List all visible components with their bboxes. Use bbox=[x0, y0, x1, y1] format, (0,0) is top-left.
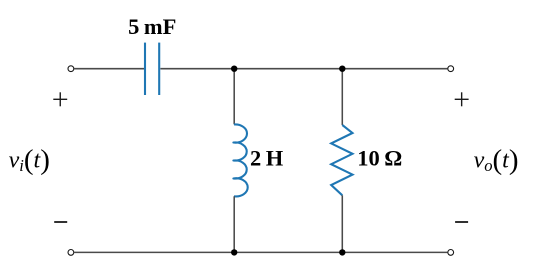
node: top junction at inductor bbox=[231, 66, 237, 72]
inductor L1 (2 H) bbox=[233, 124, 247, 196]
wire: inductor branch top bbox=[233, 69, 235, 125]
capacitor C1 (5 mF) plates bbox=[145, 43, 159, 95]
resistor R1 (10 Ohm) zigzag bbox=[331, 125, 352, 195]
wire: inductor branch bottom bbox=[233, 196, 235, 252]
terminal: input bottom (open circle) bbox=[68, 250, 74, 256]
svg-text:10 Ω: 10 Ω bbox=[357, 146, 402, 171]
wire: resistor branch top bbox=[341, 69, 343, 125]
wire: resistor branch bottom bbox=[341, 195, 343, 252]
label: minus sign input bbox=[54, 221, 67, 223]
wire: top rail right segment (capacitor to output terminal) bbox=[160, 68, 447, 70]
wire: top rail left segment (input terminal to capacitor) bbox=[74, 68, 144, 70]
svg-text:vi(t): vi(t) bbox=[9, 144, 50, 176]
terminal: input top (open circle) bbox=[68, 66, 74, 72]
wire: bottom rail bbox=[74, 251, 447, 253]
svg-text:2 H: 2 H bbox=[250, 145, 284, 170]
terminal: output top (open circle) bbox=[448, 66, 454, 72]
label: plus sign output bbox=[455, 92, 469, 106]
node: top junction at resistor bbox=[339, 66, 345, 72]
label: plus sign input bbox=[53, 92, 67, 106]
svg-text:5 mF: 5 mF bbox=[128, 14, 176, 39]
label: minus sign output bbox=[455, 221, 468, 223]
node: bottom junction at inductor bbox=[231, 249, 237, 255]
terminal: output bottom (open circle) bbox=[448, 250, 454, 256]
svg-text:vo(t): vo(t) bbox=[474, 144, 519, 176]
node: bottom junction at resistor bbox=[339, 249, 345, 255]
